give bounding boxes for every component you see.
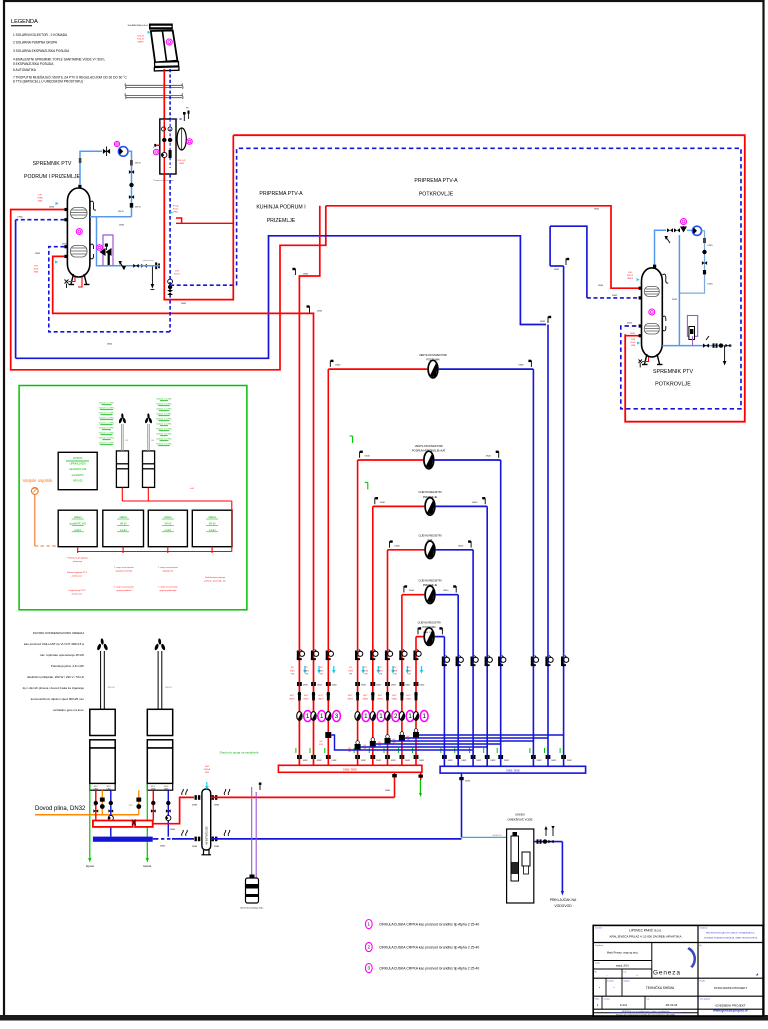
check valve [719,343,723,347]
wire blue jumper [391,740,534,742]
svg-text:Vaillant ecoTEC: Vaillant ecoTEC [156,403,172,406]
air vent [482,497,485,504]
svg-text:3 SOLARNA EKSPANZIJSKA POSUDA: 3 SOLARNA EKSPANZIJSKA POSUDA [13,49,70,53]
None [355,682,360,686]
svg-text:DN25: DN25 [630,333,636,335]
svg-text:Vaillant ecoTEC: Vaillant ecoTEC [156,398,172,401]
station lower fittings [141,264,147,268]
column fittings [129,170,134,174]
svg-text:DN65 / DN50: DN65 / DN50 [506,770,520,772]
3-way mixing valve (7) purple loop [103,235,113,266]
svg-text:VM21: VM21 [289,698,295,700]
svg-text:Geneza: Geneza [653,970,681,977]
svg-text:PODRUMA: PODRUMA [426,358,440,362]
svg-text:DN32: DN32 [405,685,410,687]
svg-text:DN65: DN65 [385,790,391,792]
svg-text:Ø80/125: Ø80/125 [165,687,172,689]
station internals [162,127,166,131]
svg-text:KGW: KGW [37,197,43,199]
svg-text:Ozn.proj:: Ozn.proj: [604,999,611,1001]
svg-text:CIJEVNI REGISTRI: CIJEVNI REGISTRI [418,620,441,624]
tank coil lower [71,246,88,258]
svg-text:POTKROVLJE: POTKROVLJE [655,381,691,387]
solar collector panel K1 [149,24,179,71]
air vent [375,497,378,504]
gas condensing boiler 1 [96,638,108,709]
boiler interface module 1 [116,451,128,488]
svg-text:VM6: VM6 [38,200,43,202]
svg-text:KOL.B: KOL.B [137,38,144,40]
pump branch 4 [425,541,435,559]
wire blue attic loop upper [550,226,587,298]
svg-text:VM21: VM21 [406,698,412,700]
svg-text:SUSTAVA, PLANINA GORNJA 4B, GR: SUSTAVA, PLANINA GORNJA 4B, GRAD VELIKA … [704,937,758,940]
union fitting [385,755,390,759]
svg-text:KGLA: KGLA [204,768,210,771]
svg-text:VRÐ: VRÐ [173,211,178,213]
svg-text:KGS: KGS [378,670,383,672]
svg-text:DN32: DN32 [361,685,366,687]
wire red supply to attic tank [326,206,641,288]
svg-text:grijanja prizemlje: grijanja prizemlje [116,569,133,572]
tank sensor [76,229,82,235]
svg-text:Datum:: Datum: [595,962,601,965]
air vent [292,268,295,275]
wire tank top to pump [80,151,102,185]
svg-text:DN32: DN32 [332,760,337,762]
svg-text:DN32: DN32 [612,295,618,297]
svg-text:PL2: PL2 [129,805,132,807]
svg-text:VM21: VM21 [347,698,353,700]
drain line Ispust [146,790,148,860]
flow marker [303,666,307,674]
valve on blue riser 8 [561,656,569,667]
mixing valve sensor [681,219,687,225]
svg-text:CIRKULACIJSKA CRPKA kao proizv: CIRKULACIJSKA CRPKA kao proizvod Grundfo… [379,967,479,971]
svg-text:DN80: DN80 [192,805,198,807]
svg-text:DN50: DN50 [598,285,604,287]
svg-text:DN32: DN32 [332,685,337,687]
controller box 2 [103,510,144,547]
svg-text:1: 1 [368,922,371,927]
red stub left of station [156,144,160,146]
wire blue branch 2 [435,459,501,461]
svg-text:DN32: DN32 [462,760,467,762]
wire red riser 298 from supply [299,206,319,765]
air vent [404,585,407,592]
svg-text:DN 25: DN 25 [135,163,142,165]
attic line valves [703,344,709,348]
svg-text:REKONSTRUKCIJA KOTLOVNICE I UG: REKONSTRUKCIJA KOTLOVNICE I UGRADNJA SOL… [706,932,756,935]
svg-text:polaznog: polaznog [73,561,83,563]
svg-text:DN 25: DN 25 [118,211,125,213]
svg-text:PODRUMA: PODRUMA [422,625,436,629]
svg-text:DN40: DN40 [518,365,524,367]
wire blue riser x548 down [547,325,549,767]
svg-text:VM21: VM21 [318,698,324,700]
svg-text:DN15: DN15 [708,284,714,286]
wire blue jumper [419,734,564,736]
valve on red riser 6 [385,650,393,661]
svg-text:Vaillant ecoTEC: Vaillant ecoTEC [156,413,172,416]
svg-text:UMP1: UMP1 [137,41,144,43]
svg-text:Projektirao:: Projektirao: [595,944,604,947]
wire blue riser x473.1 [472,550,474,766]
flow marker [170,211,173,214]
svg-text:el.B: el.B [190,488,194,490]
svg-text:DN40: DN40 [380,502,386,504]
svg-text:auroMATIC: auroMATIC [72,474,84,477]
valve on red riser 1 [297,650,305,661]
wire blue branch 3 [436,505,487,507]
attic tank sensor [649,309,655,315]
wire softener outlet [534,841,563,843]
svg-text:KGG: KGG [631,342,636,344]
svg-text:VM8: VM8 [631,345,636,347]
wire blue riser x533.4 [532,369,534,766]
svg-text:CIRKULACIJSKA CRPKA kao proizv: CIRKULACIJSKA CRPKA kao proizvod Grundfo… [379,923,479,927]
control panel box [58,452,97,489]
wire dashed into attic tank [587,297,640,299]
None [297,682,302,686]
svg-text:DN80: DN80 [214,805,220,807]
wire blue riser x564 down [563,266,565,766]
circulation pump riser 3 [326,711,341,722]
svg-text:PODRUM+PRIZEMLJE+KAT: PODRUM+PRIZEMLJE+KAT [412,448,446,452]
svg-text:DN65: DN65 [170,829,176,831]
drain line Ispust [89,790,91,860]
pump branch 6 [424,628,434,646]
svg-text:srpanj, 2014.: srpanj, 2014. [616,965,630,968]
svg-text:6 AUTOMATIKA: 6 AUTOMATIKA [13,68,37,72]
svg-text:3: 3 [368,966,371,971]
union fitting [498,755,503,759]
valve on blue riser 5 [498,656,506,667]
svg-text:Vaillant ecoTEC: Vaillant ecoTEC [156,433,172,436]
svg-text:DN50: DN50 [49,207,55,209]
boiler flow/return drops [95,790,97,820]
flow marker [637,341,640,344]
air vent kitchen riser [548,316,551,323]
check valve [129,183,133,187]
svg-text:Potrošnja plina: 4,8 m3/h: Potrošnja plina: 4,8 m3/h [51,664,85,668]
wire blue riser x444.4 [443,637,445,766]
svg-text:1 smjer osunčanosti: 1 smjer osunčanosti [158,566,178,569]
wire dashed branch to riser x236.6 [170,284,237,286]
valve on blue riser 1 [442,656,450,667]
None [370,682,375,686]
wire blue jumper [361,746,488,748]
air vent [439,627,442,634]
air vent [566,258,569,265]
svg-text:grijanja podrum: grijanja podrum [116,589,131,592]
controller box 3 [148,510,187,547]
union fitting [546,755,551,759]
svg-text:Građevina:: Građevina: [700,927,709,930]
svg-text:2: 2 [368,944,371,949]
svg-text:DN50: DN50 [181,303,187,305]
safety group above vessel [170,118,182,120]
svg-text:Vanjski osjetnik: Vanjski osjetnik [23,478,54,483]
red manifold feed from boilers [394,772,396,797]
svg-text:KGS: KGS [348,670,353,672]
svg-text:modul: modul [165,529,172,532]
svg-text:SGS: SGS [34,268,39,270]
separator marker [205,782,209,789]
svg-text:DN40: DN40 [443,590,449,592]
svg-text:•: • [637,973,638,977]
svg-text:DN32: DN32 [448,760,453,762]
svg-text:VRS 620: VRS 620 [73,479,83,482]
manifold safety stub green [420,772,422,780]
svg-text:DN65: DN65 [303,273,309,275]
valve on blue riser 6 [531,656,539,667]
sensor circle [166,39,172,45]
attic recirculation pump [692,226,701,235]
svg-text:Podešavanje grijanja: Podešavanje grijanja [67,557,88,560]
jumper from riser 328 [325,732,331,738]
svg-text:Z-441: Z-441 [620,1003,628,1007]
union fitting [456,755,461,759]
svg-text:Vaillant: Vaillant [164,516,172,519]
collector flow marker [148,31,151,34]
wire blue jumper [376,743,501,745]
wire cold water to softener [462,836,507,838]
svg-text:DN: DN [125,440,129,442]
air vent [418,627,421,634]
wire blue riser x487.2 [486,506,488,766]
red control wiring [121,487,123,501]
valve on red riser 7 [399,650,407,661]
circulation pump riser 8 [413,711,428,722]
svg-text:Podešavanje grijanja: Podešavanje grijanja [205,576,226,579]
wire blue branch 5 [436,594,458,596]
tank legs [69,274,90,285]
svg-text:Prilog:: Prilog: [595,999,600,1001]
wire coil loop to station [90,217,160,266]
svg-text:Vaillant ecoTEC: Vaillant ecoTEC [156,423,172,426]
blue collector bar boilers [93,837,153,842]
check valve [168,138,172,142]
svg-text:DN: DN [175,271,179,273]
svg-text:DN 25: DN 25 [135,207,142,209]
svg-text:UPRAVLJAČKI: UPRAVLJAČKI [70,463,86,466]
svg-text:3: 3 [335,713,339,720]
svg-text:PODRUM I PRIZEMLJE: PODRUM I PRIZEMLJE [24,174,80,180]
circulation pump riser 2 [311,711,326,722]
svg-text:KGS: KGS [290,670,295,672]
svg-text:KGS: KGS [393,670,398,672]
valve on blue riser 7 [545,656,553,667]
wire red inside station [163,119,165,174]
flow marker [376,666,380,674]
svg-text:•: • [614,986,615,990]
svg-text:IZVEDBENI PROJEKT: IZVEDBENI PROJEKT [715,1004,746,1008]
pump branch 2 [424,451,434,469]
blue manifold sabirnik [440,766,585,773]
svg-text:VM21: VM21 [303,698,309,700]
svg-text:DN50: DN50 [317,311,323,313]
svg-text:Vaillant ecoTEC: Vaillant ecoTEC [99,422,115,425]
svg-text:OMEKŠIVAČ VODE: OMEKŠIVAČ VODE [507,817,532,822]
svg-text:DN32: DN32 [504,760,509,762]
wire dashed inside station [169,119,171,168]
svg-text:naz. toplinsko opterećenje 45: naz. toplinsko opterećenje 45 kW [40,653,84,657]
svg-text:Vaillant ecoTEC: Vaillant ecoTEC [99,412,115,415]
svg-text:5 EKSPANZIJSKA POSUDA: 5 EKSPANZIJSKA POSUDA [13,62,54,66]
svg-text:CIJEVNI REGISTRI: CIJEVNI REGISTRI [419,490,442,494]
svg-text:DN80: DN80 [192,846,198,848]
svg-text:STROJARSKI PROJEKT: STROJARSKI PROJEKT [714,986,748,990]
wire blue branch 4 [436,549,473,551]
svg-text:DN32: DN32 [554,269,560,271]
union fitting [485,755,490,759]
svg-text:Vaillant ecoTEC: Vaillant ecoTEC [99,402,115,405]
wire blue dashed lower recirc loop [49,247,170,332]
svg-text:2: 2 [394,713,398,720]
svg-text:Vaillant ecoTEC: Vaillant ecoTEC [99,407,115,410]
svg-text:VM: VM [320,674,323,676]
sensor circle [114,141,119,146]
flow marker [391,666,395,674]
circulation pump riser 1 [297,711,312,722]
svg-text:Vaillant: Vaillant [208,516,216,519]
svg-text:1: 1 [422,713,426,720]
check valve [166,801,170,805]
wire red branch 6 [416,636,423,638]
wire red main to manifold [211,796,395,798]
wire blue boilers to separator [153,838,155,840]
svg-text:calorMATIC 630: calorMATIC 630 [69,468,87,471]
svg-text:preljev/punjenje: preljev/punjenje [142,260,153,262]
svg-text:Ispust: Ispust [143,864,151,868]
wire red riser x357.6 [357,460,359,765]
air vent [528,360,531,367]
wire red riser x328.3 [327,369,329,765]
svg-text:DN50: DN50 [594,208,600,210]
title block [593,925,763,1016]
automation control enclosure (6) green box [19,386,247,610]
svg-text:DN32: DN32 [405,760,410,762]
wire attic recirc down [679,231,704,293]
svg-text:DN32: DN32 [391,760,396,762]
svg-text:DN15: DN15 [708,245,714,247]
svg-text:DN25: DN25 [672,299,678,301]
wire solar return drop dashed [169,69,171,119]
svg-text:DN32: DN32 [537,760,542,762]
svg-text:tip n dimnih plinova i dovod z: tip n dimnih plinova i dovod zraka za iz… [23,686,85,690]
svg-text:DN25: DN25 [62,243,68,245]
svg-text:DN40: DN40 [458,545,464,547]
svg-text:DN32: DN32 [303,685,308,687]
attic cold water line [678,235,680,346]
svg-text:KAT: KAT [428,538,433,542]
svg-text:DN32: DN32 [420,685,425,687]
left storage tank (4) SPREMNIK PTV [67,188,90,277]
svg-text:koncentričnom dijelom cijevi 8: koncentričnom dijelom cijevi 80/125 mm [31,697,85,701]
svg-text:Vaillant ecoTEC: Vaillant ecoTEC [99,432,115,435]
svg-text:SOLARNI SHK=4,6 m2: SOLARNI SHK=4,6 m2 [128,24,150,27]
solar pump station box (2) [160,119,176,174]
wire blue branch 6 [435,636,445,638]
union fitting [370,755,375,759]
flex connector [182,789,188,795]
check valve [702,250,706,254]
svg-text:DPi: DPi [34,266,38,268]
svg-text:KOLO: KOLO [174,273,180,275]
svg-text:Solarno grijanje PTV: Solarno grijanje PTV [67,571,88,574]
union fitting [326,755,331,759]
dosing canister [246,875,259,904]
svg-text:VM: VM [407,674,410,676]
svg-text:VM21: VM21 [377,698,383,700]
valve on red riser 2 [311,650,319,661]
wire blue dashed top main to attic [239,148,741,409]
separator feet [202,850,212,855]
valve on red riser 5 [370,650,378,661]
valve on red riser 3 [326,650,334,661]
svg-text:POTKROVLJE: POTKROVLJE [419,192,454,198]
wire to water main [561,842,563,893]
valve cluster on dashed recirc [167,279,173,295]
svg-text:SPREMNIK PTV: SPREMNIK PTV [653,369,694,375]
None [311,682,316,686]
attic storage tank SPREMNIK PTV POTKROVLJE [642,268,663,357]
wire red riser x416.0 [415,637,417,765]
svg-text:DN32: DN32 [419,760,424,762]
svg-text:prema aut.: prema aut. [72,592,83,595]
svg-text:PRIZEMLJE: PRIZEMLJE [423,495,438,499]
wire solar flow drop [163,69,165,119]
wire red branch 5 [402,594,424,596]
svg-text:modul: modul [120,529,127,532]
air vent [360,451,363,458]
svg-text:8 TTS (BATISCELL U UREDSKOM P: 8 TTS (BATISCELL U UREDSKOM PROSTORU) [13,80,83,84]
wire blue solid kitchen loop left [16,236,546,358]
wire dashed solar vertical x170 [169,174,171,332]
flow marker [317,666,321,674]
svg-text:VM: VM [348,751,351,753]
wire red boilers to separator [153,797,194,823]
svg-text:IONSKI: IONSKI [515,813,525,817]
air vent [468,540,471,547]
sensor circle [97,245,103,251]
wire blue jumper [405,737,548,739]
svg-text:PRIZEMLJE: PRIZEMLJE [267,218,296,224]
wire red solar bottom run [164,135,233,299]
svg-text:VM21: VM21 [392,698,398,700]
wire red tank return to riser 313 [53,256,314,765]
flow marker [361,666,365,674]
attic tank legs [642,354,663,365]
svg-text:VR 60: VR 60 [120,522,127,525]
svg-text:VM: VM [291,674,294,676]
vessel sensor [187,139,193,145]
pump branch 1 [428,360,438,378]
pump branch 3 [425,498,435,516]
safety discharge tee [151,266,153,284]
tank nozzles [64,208,67,211]
svg-text:DN50: DN50 [107,344,113,346]
union fitting [355,755,360,759]
svg-text:KOL.UP: KOL.UP [177,160,186,162]
svg-text:KGS: KGS [407,670,412,672]
svg-text:PRIPREMA PTV-A: PRIPREMA PTV-A [414,178,458,184]
svg-text:PRIKLJUČAK NA: PRIKLJUČAK NA [550,897,577,902]
wire attic cold bottom [662,345,732,347]
station sensor [153,149,159,155]
wire red into attic tank lower nozzle [625,335,638,337]
